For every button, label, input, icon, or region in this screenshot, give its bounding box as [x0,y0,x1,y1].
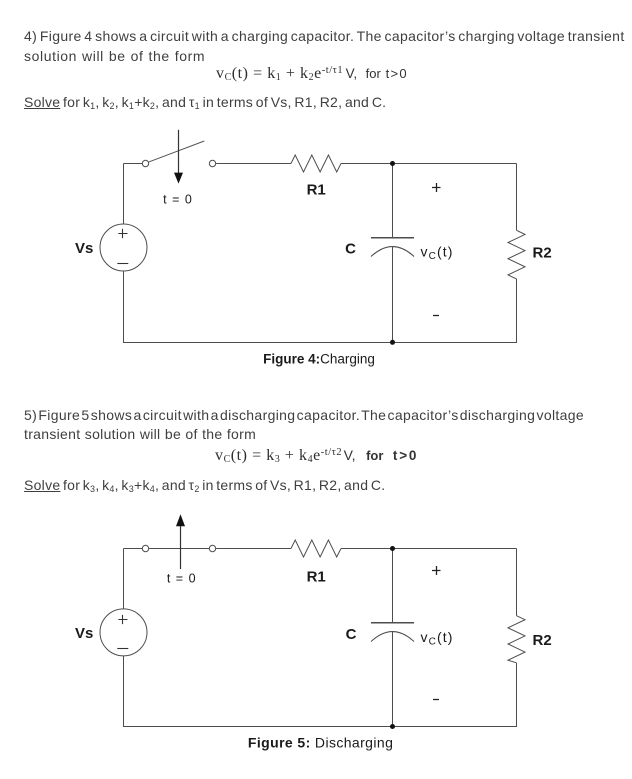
svg-text:R2: R2 [533,632,552,649]
svg-text:Figure 4:Charging: Figure 4:Charging [263,352,375,367]
svg-text:t = 0: t = 0 [163,192,193,206]
svg-text:Figure 5: Discharging: Figure 5: Discharging [248,735,393,751]
svg-text:vC(t): vC(t) [421,629,454,648]
svg-text:R1: R1 [307,181,326,198]
svg-text:C: C [346,626,357,643]
svg-text:C: C [345,241,356,258]
svg-text:vC(t): vC(t) [421,243,454,262]
svg-text:Vs: Vs [75,240,93,257]
svg-text:R2: R2 [533,245,552,262]
svg-text:t = 0: t = 0 [167,571,197,585]
svg-text:R1: R1 [307,569,326,586]
svg-text:Vs: Vs [75,625,93,642]
